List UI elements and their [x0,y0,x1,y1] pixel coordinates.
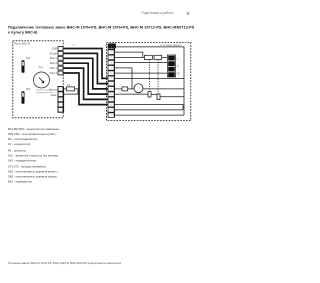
svg-text:PE: PE [177,73,181,75]
svg-text:Вент.2: Вент.2 [50,62,58,65]
svg-text:тепловая завеса: тепловая завеса [160,44,181,47]
svg-text:SA1: SA1 [39,66,44,69]
svg-text:ХТ2: ХТ2 [72,45,77,47]
svg-text:220В: 220В [51,47,57,50]
svg-text:Нагр.2: Нагр.2 [50,72,58,75]
svg-text:N: N [177,66,179,68]
svg-text:SB2: SB2 [26,89,31,91]
svg-text:Нагр.1: Нагр.1 [50,67,58,70]
svg-text:Вент.1: Вент.1 [50,57,58,60]
svg-text:t возд.: t возд. [50,94,57,97]
svg-text:Общий: Общий [49,52,58,55]
svg-text:режимов работы: режимов работы [36,92,53,94]
svg-text:L: L [177,59,179,61]
svg-text:SB1: SB1 [26,58,31,60]
svg-text:Пульт ВКС-В: Пульт ВКС-В [14,42,30,46]
